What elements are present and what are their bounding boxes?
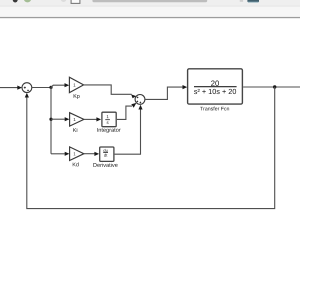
derivative block (du/dt) <box>100 147 114 161</box>
wire: input from left edge to sum S1 <box>0 87 18 89</box>
branch node dot (Ki row) <box>49 118 52 121</box>
sum junction S1 <box>22 83 32 93</box>
gain Ki <box>70 113 84 126</box>
branch node dot <box>49 86 52 89</box>
output junction node dot <box>273 85 276 88</box>
toolbar small gray item <box>240 0 243 2</box>
S1 minus sign (bottom input) <box>27 89 29 91</box>
toolbar strip (cropped app chrome) <box>0 0 300 6</box>
toolbar icon: dark dot <box>13 0 18 3</box>
wire: Integrator to sum S2 (lower-left port) <box>117 106 132 119</box>
label Kd <box>73 162 79 166</box>
wire: Kp to sum S2 (upper-left port) <box>84 85 132 94</box>
wire: Transfer Fcn output to right edge <box>243 86 300 88</box>
transfer fcn block <box>188 69 243 104</box>
label Ki <box>73 128 77 132</box>
label Integrator <box>97 128 120 133</box>
vertical branch wire down to Ki and Kd rows <box>50 87 52 153</box>
wire: branch to gain Kp <box>51 85 65 87</box>
wire: S2 to Transfer Fcn <box>145 87 183 99</box>
integrator block (1/s) <box>102 112 116 127</box>
wire: Derivative to sum S2 (bottom port) <box>115 109 141 154</box>
gain Kd <box>70 147 84 161</box>
wire: branch to gain Ki <box>51 118 65 120</box>
S1 plus sign (left input) <box>24 87 26 89</box>
wire: branch to gain Kd <box>51 153 65 155</box>
S2 plus signs <box>137 97 139 99</box>
wire: S1 output to branch node <box>32 87 51 89</box>
toolbar icon: green circle <box>24 0 31 2</box>
wire: Kd to Derivative <box>84 153 95 155</box>
feedback wire: down, left, and up into S1 <box>27 87 275 209</box>
label Transfer Fcn <box>200 107 229 111</box>
label Kp <box>74 94 80 99</box>
label Derivative <box>93 163 117 167</box>
toolbar icon: teal button <box>247 0 259 2</box>
toolbar icon: faint circle <box>61 0 66 2</box>
gain Kp <box>69 77 83 92</box>
toolbar icon: white square <box>71 0 80 3</box>
wire: Ki to Integrator <box>84 118 97 120</box>
toolbar bottom border line <box>0 17 300 18</box>
toolbar slider bar <box>92 0 207 2</box>
sum junction S2 <box>135 95 145 105</box>
